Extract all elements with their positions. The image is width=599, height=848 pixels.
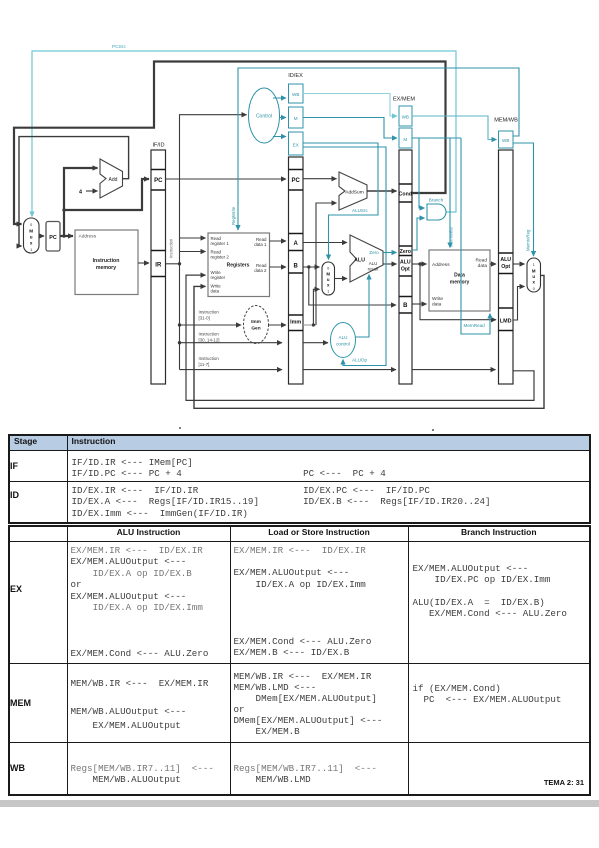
wire instruction[30,14-12] (funct) through ID/EX to ALU control [180,332,329,343]
wire ALUOp EX cell to ALU control [303,147,386,366]
svg-text:M: M [532,269,536,274]
svg-text:PC: PC [49,235,57,241]
imm-gen oval [244,306,269,344]
wire ID/EX.A to ALU input 1 [303,242,347,244]
constant 4 into Add [79,190,98,196]
wire ALUSrc EX cell to mux M2 select [303,143,378,260]
svg-text:ALU: ALU [500,257,511,263]
pipeline register ID/EX [288,73,303,384]
wire EX/MEM.B to data memory write data [412,303,427,305]
svg-text:control: control [336,342,350,347]
wire PCSrc (AND gate output to PC mux) [32,44,456,217]
svg-text:MEM/WB: MEM/WB [494,118,518,124]
svg-text:data: data [432,302,442,308]
wire branch target loop (EX/MEM.Cond area to mux input 0) [14,62,446,225]
svg-text:1: 1 [30,248,32,252]
alu control oval [331,323,356,358]
wire mux M2 output to ALU input 2 [335,278,348,280]
wire M chain ID/EX to EX/MEM [303,118,397,139]
wire ALU zero to EX/MEM.Zero [383,252,397,254]
svg-text:MemWrite: MemWrite [449,227,454,247]
wire ALU result to EX/MEM.ALUout [383,263,397,265]
wire mux M1 to PC [39,235,44,237]
svg-text:register 2: register 2 [211,255,230,260]
svg-text:ALUOp: ALUOp [352,358,368,363]
svg-text:1: 1 [327,290,329,294]
svg-text:Address: Address [79,234,97,240]
wire ID/EX.B to mux M2 and down to EX/MEM.B [303,265,396,305]
svg-text:Write: Write [432,296,443,302]
pipeline register IF/ID [151,143,166,385]
svg-text:Gen: Gen [251,326,260,332]
svg-text:ALU: ALU [339,335,348,340]
wire PC to instruction memory address (with tap up to Add) [60,168,149,238]
svg-text:PC: PC [154,178,163,184]
wire MemtoReg MEM/WB.WB to mux M3 select [513,143,534,256]
data memory [429,250,490,311]
svg-text:register 1: register 1 [211,241,230,246]
svg-text:EX: EX [293,143,299,148]
svg-text:register: register [211,275,226,280]
svg-text:AddSum: AddSum [345,190,363,196]
svg-text:A: A [294,241,299,247]
svg-text:Zero: Zero [400,249,411,255]
svg-text:Instruction: Instruction [199,332,220,337]
svg-text:x: x [30,241,33,246]
svg-text:IR: IR [155,263,162,269]
page footer slide number [450,778,584,787]
wire instruction[31-0] to imm gen, into ID/EX.Imm [180,310,287,326]
svg-text:WB: WB [502,138,509,143]
wire EX/MEM.M distribution: Branch, MemWrite, MemRead [412,138,490,334]
page-break gray band [0,800,599,807]
svg-text:MemtoReg: MemtoReg [526,229,531,251]
svg-text:Opt: Opt [501,264,510,270]
svg-text:PCSrc: PCSrc [112,44,126,50]
svg-text:Opt: Opt [401,267,410,273]
wire MEM/WB.LMD to mux M3 [513,287,525,321]
svg-text:data: data [478,263,488,269]
svg-text:Imm: Imm [251,319,261,325]
svg-text:1: 1 [533,263,535,267]
svg-text:MemRead: MemRead [464,323,486,328]
svg-text:M: M [403,137,407,142]
svg-text:Add: Add [109,177,118,183]
svg-text:M: M [326,272,330,277]
and gate (branch) [427,198,446,221]
pipeline register MEM/WB [494,118,518,385]
svg-text:data 1: data 1 [254,242,267,247]
svg-text:memory: memory [450,280,470,286]
svg-text:Zero: Zero [369,250,379,255]
adder AddSum (branch target) [339,172,367,210]
svg-text:data 2: data 2 [254,268,267,273]
registers file [208,233,270,297]
svg-text:Control: Control [256,114,272,120]
pipeline register EX/MEM [393,97,415,385]
wire data memory read data to MEM/WB [490,263,496,265]
svg-text:Instruction: Instruction [199,356,220,361]
svg-text:Imm: Imm [290,320,301,326]
wire IR bus riser with taps (instruction distribution) [166,115,247,370]
wire read data 1 to ID/EX.A [270,240,287,242]
svg-text:EX/MEM: EX/MEM [393,97,415,103]
wire ALU control output to ALU [356,275,370,338]
svg-text:WB: WB [292,92,299,97]
svg-text:Branch: Branch [429,198,444,203]
instruction memory [75,230,138,295]
pc register [46,222,60,252]
svg-text:Registers: Registers [227,263,250,269]
svg-text:u: u [532,274,535,279]
wire mux M3 output write-back loop to registers write data [194,275,544,408]
svg-text:ALU: ALU [400,260,411,266]
svg-text:PC: PC [292,178,301,184]
wire MEM/WB.ALUout to mux M3 [513,263,525,265]
svg-text:Cond: Cond [399,192,412,198]
svg-text:Instruction: Instruction [93,258,120,264]
svg-text:Instruction: Instruction [169,238,174,258]
svg-text:4: 4 [79,190,82,196]
svg-text:WB: WB [402,115,409,120]
wire ID/EX.PC to AddSum [303,178,337,180]
svg-text:M: M [294,116,298,121]
wire IF/ID.PC to ID/EX.PC [166,178,287,180]
wire PC+4 loop (Add output to mux input 1) [19,137,129,246]
wire control to ID/EX WB M EX cells [273,98,286,137]
svg-text:RegWrite: RegWrite [231,206,236,225]
svg-text:u: u [327,277,330,282]
svg-text:Data: Data [454,273,465,279]
adder Add (PC+4) [100,159,123,198]
mux M1 (PC source) [24,218,40,253]
svg-text:ALU: ALU [354,258,365,264]
wire ID/EX.Imm risers to mux M2 input 1 and AddSum [303,203,337,327]
svg-text:[30, 14-12]: [30, 14-12] [199,338,220,343]
svg-text:M: M [29,229,33,234]
wire read data 2 to ID/EX.B [270,266,287,268]
svg-text:u: u [30,235,33,240]
svg-text:Address: Address [432,262,450,268]
mux M2 (ALU operand B) [322,262,335,295]
wire EX/MEM.Zero to AND gate [412,218,425,250]
wire WB chain ID/EX to EX/MEM [303,94,397,117]
svg-text:0: 0 [30,223,32,227]
svg-text:result: result [368,267,380,272]
wire RegWrite loop MEM/WB.WB to registers [231,68,519,230]
wire WB chain EX/MEM to MEM/WB [412,116,497,140]
svg-text:[31-0]: [31-0] [199,316,210,321]
svg-text:Instruction: Instruction [199,310,220,315]
svg-text:LMD: LMD [500,319,512,325]
svg-text:B: B [403,303,408,309]
svg-text:ALUSrc: ALUSrc [352,208,369,213]
wire instruction[11-7] (rd) through ID/EX, EX/MEM, MEM/WB and back to write register [180,275,535,400]
wire EX/MEM.ALUout to data memory address + bypass to MEM/WB.LMD [412,262,496,319]
svg-text:data: data [211,289,220,294]
svg-text:B: B [294,263,299,269]
speck dots (scan artifacts) [179,427,434,431]
svg-text:ID/EX: ID/EX [288,73,303,79]
svg-text:0: 0 [327,267,329,271]
svg-text:IF/ID: IF/ID [152,143,164,149]
svg-text:memory: memory [96,265,116,271]
svg-text:ALU: ALU [369,261,378,266]
ALU [350,235,383,282]
control unit oval [249,88,280,143]
wire AddSum output to EX/MEM.Cond [367,190,397,192]
mux M3 (write-back) [527,258,541,292]
svg-text:0: 0 [533,287,535,291]
svg-text:[11-7]: [11-7] [199,362,210,367]
svg-text:Read: Read [476,258,488,264]
wire instruction memory to IF/ID.IR [138,262,149,264]
